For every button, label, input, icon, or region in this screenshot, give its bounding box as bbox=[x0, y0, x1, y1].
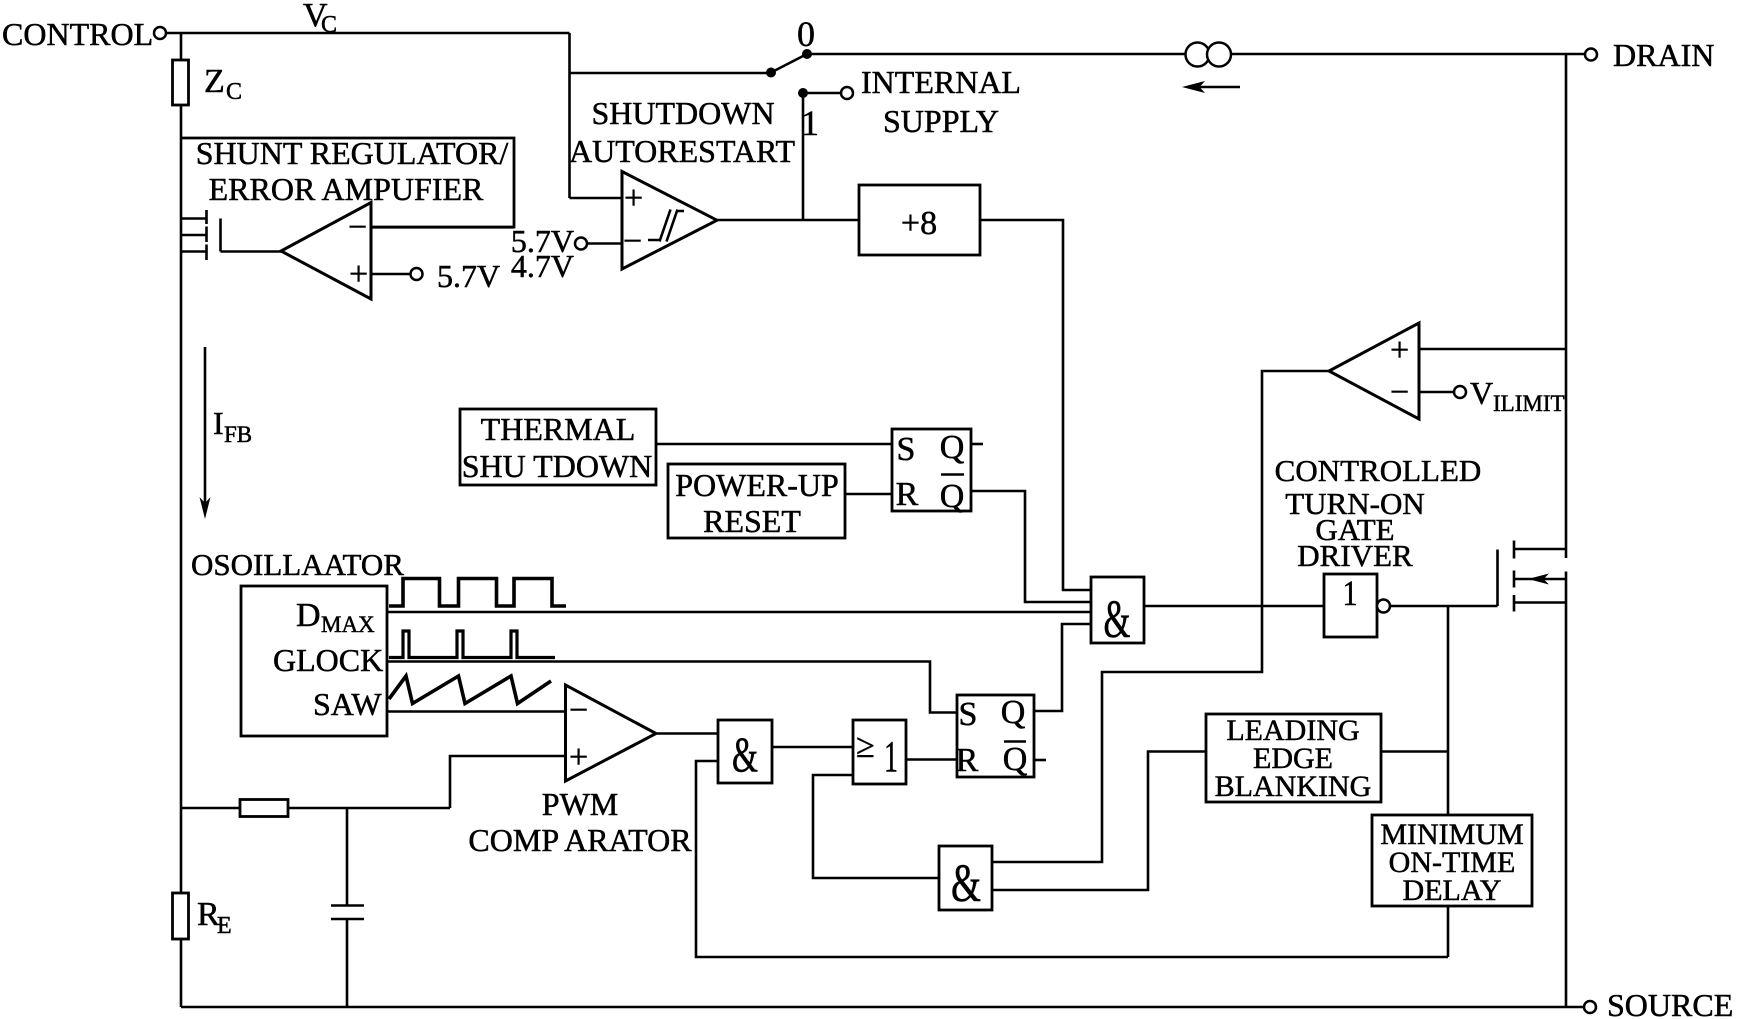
transistor Q2 body bar with arrow bbox=[1514, 574, 1566, 585]
wire GLOCK output to FF2 S input bbox=[387, 662, 957, 713]
minimum on-time delay box bbox=[1372, 815, 1532, 906]
label IFB text bbox=[213, 405, 252, 447]
svg-text:RESET: RESET bbox=[703, 503, 801, 539]
svg-text:−: − bbox=[623, 223, 642, 260]
wire U1 plus input to 5.7V reference terminal bbox=[371, 273, 410, 276]
wire FF1 Q output stub bbox=[971, 443, 983, 446]
gate driver U6 inverting output bubble bbox=[1377, 600, 1390, 613]
wire A2 output to OR gate bbox=[772, 746, 853, 749]
svg-text:MAX: MAX bbox=[321, 612, 375, 637]
wire thermal shutdown output to FF1 S input bbox=[656, 443, 892, 446]
wire threshold terminal to comparator minus input bbox=[587, 242, 622, 245]
svg-text:ILIMIT: ILIMIT bbox=[1493, 391, 1565, 416]
node INTERNAL SUPPLY terminal circle bbox=[841, 87, 853, 99]
switch position 0 contact dot bbox=[802, 49, 812, 59]
node SOURCE terminal circle bbox=[1584, 1001, 1596, 1013]
leading edge blanking box bbox=[1206, 714, 1381, 802]
svg-text:Z: Z bbox=[204, 63, 225, 100]
svg-text:−: − bbox=[569, 692, 588, 729]
svg-text:+: + bbox=[624, 180, 643, 217]
svg-text:CONTROL: CONTROL bbox=[2, 16, 153, 52]
svg-text:DRIVER: DRIVER bbox=[1297, 538, 1413, 573]
wire FF2 Qbar output stub bbox=[1034, 759, 1046, 762]
svg-text:&: & bbox=[951, 853, 981, 913]
flip-flop FF1 pin Qbar label bbox=[940, 475, 965, 516]
svg-text:POWER-UP: POWER-UP bbox=[675, 467, 839, 503]
svg-text:V: V bbox=[1470, 375, 1493, 411]
svg-text:Q: Q bbox=[940, 478, 965, 515]
svg-text:DRAIN: DRAIN bbox=[1613, 37, 1714, 73]
flip-flop FF2 box bbox=[957, 695, 1034, 777]
node VILIMIT label bbox=[1470, 375, 1565, 416]
svg-text:R: R bbox=[956, 742, 979, 779]
svg-text:S: S bbox=[959, 696, 978, 733]
shunt regulator box (open lower-left) bbox=[181, 138, 514, 227]
svg-text:Q: Q bbox=[1003, 741, 1028, 778]
wire A1 output to gate driver bbox=[1144, 605, 1324, 608]
transistor Q2 output MOSFET gate bar bbox=[1496, 550, 1499, 607]
wire left rail x=181 from top rail to bottom rail bbox=[180, 33, 183, 1007]
svg-text:SOURCE: SOURCE bbox=[1607, 987, 1733, 1019]
svg-text:SHU TDOWN: SHU TDOWN bbox=[462, 448, 653, 484]
svg-text:THERMAL: THERMAL bbox=[481, 411, 636, 447]
waveform DMAX square wave bbox=[389, 579, 566, 607]
wire VC top rail from CONTROL to corner bbox=[166, 32, 570, 35]
flip-flop FF1 box bbox=[892, 429, 971, 511]
svg-text:GLOCK: GLOCK bbox=[273, 642, 383, 678]
node VC label bbox=[303, 0, 337, 38]
svg-text:PWM: PWM bbox=[542, 786, 618, 822]
wire lower AND gate A3 output to OR gate O1 input bbox=[813, 775, 939, 878]
capacitor C1 plates bbox=[331, 906, 364, 920]
node VILIMIT terminal circle bbox=[1454, 386, 1466, 398]
svg-text:+8: +8 bbox=[901, 205, 937, 242]
transistor Q2 drain bar bbox=[1514, 548, 1566, 551]
svg-text:S: S bbox=[897, 431, 916, 468]
svg-text:D: D bbox=[296, 597, 321, 634]
svg-text:SAW: SAW bbox=[313, 686, 382, 722]
resistor ZC label bbox=[204, 63, 242, 105]
svg-text:Q: Q bbox=[1001, 694, 1026, 731]
svg-text:0: 0 bbox=[797, 14, 815, 54]
svg-text:C: C bbox=[321, 12, 337, 38]
svg-text:1: 1 bbox=[884, 732, 898, 781]
wire minimum on-time delay output down bbox=[1447, 906, 1450, 957]
svg-text:−: − bbox=[348, 209, 367, 246]
svg-text:R: R bbox=[896, 476, 919, 513]
current source CS1 circles bbox=[1186, 43, 1232, 67]
wire DMAX output to main AND gate bbox=[387, 611, 1091, 614]
node DRAIN terminal circle bbox=[1585, 49, 1597, 61]
wire U5 output to AND gate A2 bbox=[656, 732, 718, 735]
flip-flop FF2 pin Qbar label bbox=[1003, 741, 1028, 778]
node threshold terminal circle bbox=[575, 238, 587, 250]
power-up reset box bbox=[668, 464, 845, 538]
OR gate O1 box bbox=[853, 720, 906, 784]
svg-text:+: + bbox=[569, 739, 588, 776]
waveform SAW sawtooth bbox=[389, 676, 551, 704]
svg-text:SHUTDOWN: SHUTDOWN bbox=[591, 95, 774, 131]
svg-text:ERROR AMPUFIER: ERROR AMPUFIER bbox=[209, 171, 484, 207]
svg-text:SUPPLY: SUPPLY bbox=[883, 103, 999, 139]
oscillator pin DMAX label bbox=[296, 597, 375, 637]
svg-text:INTERNAL: INTERNAL bbox=[861, 64, 1021, 100]
wire bottom rail to SOURCE bbox=[181, 1006, 1584, 1009]
wire position 1 contact to internal supply terminal bbox=[803, 92, 841, 95]
transistor Q2 source bar bbox=[1514, 601, 1566, 604]
svg-text:4.7V: 4.7V bbox=[511, 248, 574, 284]
wire feedback node up to PWM plus input bbox=[450, 756, 566, 808]
wire top rail to DRAIN bbox=[807, 53, 1585, 56]
svg-text:CONTROLLED: CONTROLLED bbox=[1275, 453, 1482, 488]
capacitor C1 top lead bbox=[346, 808, 349, 905]
switch blade to position 0 bbox=[771, 54, 807, 73]
svg-text:C: C bbox=[226, 79, 242, 105]
svg-text:E: E bbox=[217, 913, 232, 939]
wire leading edge blanking output to gate node branch bbox=[1381, 750, 1448, 753]
transistor Q1 gate bar bbox=[219, 219, 222, 252]
wire drain rail tap to ILIMIT comparator plus input bbox=[1419, 348, 1566, 351]
current source CS1 direction arrow bbox=[1182, 81, 1240, 93]
wire U6 output to output MOSFET gate bbox=[1390, 605, 1498, 608]
wire op-amp output to Q1 gate bbox=[221, 250, 282, 253]
svg-text:BLANKING: BLANKING bbox=[1215, 770, 1372, 803]
wire U4 minus input to VILIMIT terminal bbox=[1419, 391, 1454, 394]
svg-text:DELAY: DELAY bbox=[1403, 874, 1502, 907]
gate driver U6 box bbox=[1324, 574, 1377, 637]
svg-text:1: 1 bbox=[1343, 573, 1358, 613]
svg-text:FB: FB bbox=[224, 422, 252, 447]
comparator U2 shutdown/autorestart triangle bbox=[622, 172, 717, 270]
capacitor C1 bottom lead bbox=[346, 919, 349, 1007]
switch pole contact dot bbox=[766, 68, 776, 78]
OR gate O1 label bbox=[856, 728, 898, 781]
wire comparator U2 output to +8 box bbox=[717, 219, 859, 222]
svg-text:+: + bbox=[349, 256, 368, 293]
transistor Q1 body stub bbox=[181, 234, 207, 237]
transistor Q1 shunt MOSFET drain stub bbox=[181, 217, 207, 220]
svg-text:SHUNT REGULATOR/: SHUNT REGULATOR/ bbox=[196, 135, 509, 171]
wire O1 output to FF2 R input bbox=[906, 758, 957, 761]
divider block U3 +8 box bbox=[859, 185, 980, 255]
wire power-up reset output to FF1 R input bbox=[845, 493, 892, 496]
AND gate A3 lower box bbox=[939, 846, 992, 910]
wire U1 minus input feedback to box edge bbox=[371, 226, 514, 229]
wire minimum on-time delay output up to A2 input bbox=[696, 761, 1448, 957]
wire FF1 Qbar output to main AND gate bbox=[971, 491, 1091, 602]
svg-text:COMP ARATOR: COMP ARATOR bbox=[468, 822, 692, 858]
svg-text:AUTORESTART: AUTORESTART bbox=[569, 133, 796, 169]
oscillator box bbox=[241, 586, 387, 736]
svg-text:≥: ≥ bbox=[856, 728, 875, 765]
wire SAW output to PWM comparator minus input bbox=[387, 710, 566, 713]
transistor Q1 channel dashes bbox=[205, 210, 208, 260]
resistor ZC body bbox=[173, 60, 189, 105]
AND gate A2 box bbox=[718, 720, 772, 783]
wire right rail upper segment from DRAIN down to output MOSFET drain bbox=[1565, 55, 1568, 559]
wire branch to comparator plus input bbox=[570, 197, 623, 200]
resistor RE label bbox=[197, 896, 232, 939]
wire right rail lower segment from output MOSFET source to bottom rail bbox=[1565, 572, 1568, 1008]
comparator U2 hysteresis symbol bbox=[648, 210, 684, 242]
transistor Q2 channel dashes bbox=[1513, 541, 1516, 612]
svg-text:&: & bbox=[1104, 589, 1131, 649]
switch position 1 contact dot bbox=[798, 88, 808, 98]
svg-text:+: + bbox=[1390, 332, 1409, 369]
node CONTROL terminal circle bbox=[154, 27, 166, 39]
waveform GLOCK clock pulses bbox=[389, 631, 555, 658]
comparator U4 current limit triangle bbox=[1329, 323, 1419, 419]
svg-text:OSOILLAATOR: OSOILLAATOR bbox=[191, 547, 404, 582]
svg-text:Q: Q bbox=[940, 429, 965, 466]
wire +8 output to main AND gate bbox=[980, 220, 1091, 590]
wire U4 output down and across to lower AND gate bbox=[992, 371, 1329, 862]
wire position 1 contact down to comparator output bbox=[802, 93, 805, 220]
label IFB feedback current arrow bbox=[200, 347, 211, 519]
svg-text:5.7V: 5.7V bbox=[437, 258, 500, 294]
svg-text:−: − bbox=[1390, 374, 1409, 411]
transistor Q1 source stub bbox=[181, 250, 207, 253]
wire A3 input from leading edge blanking branch bbox=[992, 752, 1206, 891]
resistor RE body bbox=[173, 893, 189, 939]
node 5.7V reference terminal circle bbox=[411, 268, 423, 280]
comparator U5 PWM triangle bbox=[566, 685, 657, 781]
wire left rail to feedback node bbox=[181, 807, 450, 810]
wire FF2 Q output up to main AND gate bbox=[1034, 624, 1091, 711]
svg-text:&: & bbox=[732, 726, 758, 782]
AND gate A1 main box bbox=[1091, 577, 1144, 643]
resistor R1 feedback divider body bbox=[240, 800, 288, 817]
thermal shutdown box bbox=[460, 409, 656, 485]
op-amp U1 error amplifier triangle bbox=[281, 203, 371, 300]
wire from branch corner to switch pole bbox=[570, 72, 772, 75]
svg-text:I: I bbox=[213, 405, 224, 441]
wire vertical branch x=569 from VC rail down to shutdown comparator plus input bbox=[568, 33, 571, 198]
wire gate node down to leading edge blanking and delay bbox=[1447, 606, 1450, 815]
